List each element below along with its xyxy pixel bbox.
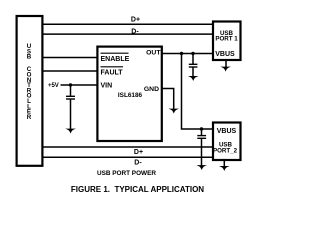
ground at GND pin: [168, 109, 179, 114]
wire capacitor C3 to ground: [201, 139, 203, 166]
svg-text:FIGURE 1. TYPICAL APPLICATION: FIGURE 1. TYPICAL APPLICATION: [71, 185, 204, 194]
pin label FAULT with overbar: [101, 67, 124, 77]
ground under C1: [65, 129, 76, 134]
ground under port 1: [220, 67, 231, 72]
wire port 1 to ground: [225, 60, 227, 67]
svg-text:PORT_2: PORT_2: [213, 148, 238, 155]
wire FAULT: [42, 70, 98, 72]
svg-text:VBUS: VBUS: [217, 128, 237, 135]
wire node C to capacitor C3: [201, 129, 203, 135]
wire capacitor C1 to ground: [70, 100, 72, 130]
wire GND pin to ground: [162, 89, 174, 110]
wire D+ top: [42, 23, 214, 25]
ground under C3: [196, 165, 207, 170]
svg-text:D+: D+: [134, 149, 143, 156]
svg-text:PORT 1: PORT 1: [215, 35, 238, 42]
wire node B to capacitor C2: [192, 54, 194, 65]
svg-text:B: B: [27, 54, 32, 61]
svg-text:+5V: +5V: [48, 82, 60, 89]
svg-text:ISL6186: ISL6186: [118, 92, 143, 99]
wire D- top: [42, 33, 214, 35]
USB port 2 box: [213, 123, 241, 161]
svg-text:R: R: [27, 114, 32, 121]
svg-text:ENABLE: ENABLE: [101, 56, 130, 63]
junction node C on VBUS branch: [200, 127, 203, 130]
ground under port 2: [219, 166, 230, 171]
wire D- bottom: [42, 156, 214, 158]
wire ENABLE: [42, 57, 98, 59]
svg-text:FAULT: FAULT: [101, 70, 124, 77]
USB controller box: [17, 16, 43, 166]
svg-text:VIN: VIN: [101, 83, 113, 90]
svg-text:D+: D+: [131, 16, 140, 23]
wire +5V junction to capacitor C1: [70, 85, 72, 96]
capacitor C1: [66, 96, 75, 99]
svg-text:D-: D-: [131, 28, 139, 35]
USB port 1 box: [213, 22, 241, 61]
svg-text:VBUS: VBUS: [215, 51, 235, 58]
pin label ENABLE with overbar: [101, 53, 130, 63]
junction node A on OUT wire: [180, 52, 183, 55]
wire OUT to port 1 VBUS: [162, 53, 214, 55]
wire D+ bottom: [42, 146, 214, 148]
wire +5V to VIN: [61, 84, 98, 86]
junction node B on OUT wire: [191, 52, 194, 55]
svg-text:OUT: OUT: [146, 49, 161, 56]
capacitor C3: [197, 136, 206, 139]
capacitor C2: [189, 64, 198, 67]
wire capacitor C2 to ground: [192, 68, 194, 77]
svg-text:GND: GND: [144, 86, 159, 93]
wire node A to port 2 VBUS: [182, 54, 214, 130]
wire port 2 to ground: [223, 160, 225, 166]
svg-text:USB PORT POWER: USB PORT POWER: [97, 170, 156, 177]
IC ISL6186: [97, 47, 161, 141]
ground under C2: [188, 76, 199, 81]
svg-text:D-: D-: [134, 160, 142, 167]
junction node on +5V wire: [69, 83, 72, 86]
